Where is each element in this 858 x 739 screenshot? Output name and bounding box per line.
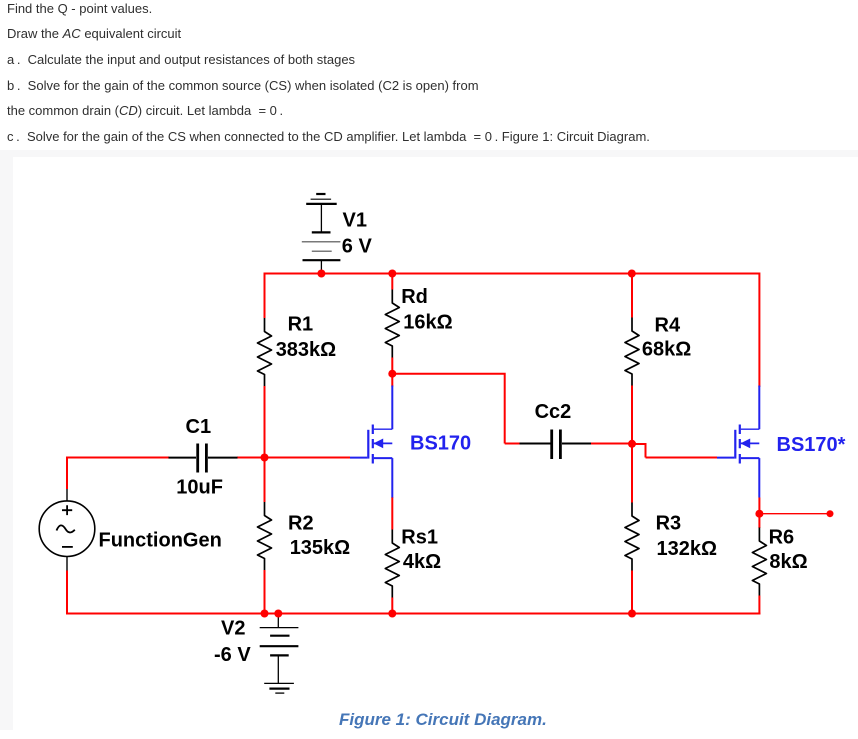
svg-text:4kΩ: 4kΩ bbox=[403, 551, 441, 573]
svg-text:C1: C1 bbox=[186, 416, 212, 438]
node gate1 (C1/R1/R2) bbox=[261, 454, 269, 462]
wire right rail top bbox=[758, 273, 760, 388]
problem statement text bbox=[7, 1, 152, 16]
source FunctionGen bbox=[39, 489, 95, 571]
wire Rd top bbox=[391, 273, 393, 290]
wire Q2 gate step bbox=[632, 443, 717, 458]
resistor R3 bbox=[625, 503, 639, 571]
svg-text:R1: R1 bbox=[288, 314, 314, 336]
wire R4 bottom node bbox=[631, 386, 633, 446]
wire left rail middle bbox=[264, 386, 266, 502]
capacitor C1 bbox=[169, 444, 238, 473]
wire Cc2 to node bbox=[591, 443, 634, 445]
battery V1 bbox=[302, 194, 341, 274]
wire input row right bbox=[237, 457, 350, 459]
wire functiongen top bbox=[66, 457, 68, 490]
resistor R1 bbox=[258, 318, 272, 386]
resistor R2 bbox=[258, 502, 272, 570]
node Rd on VDD rail bbox=[388, 270, 396, 278]
wire R4 top bbox=[631, 273, 633, 318]
wire output stub bbox=[759, 513, 830, 515]
wire top rail bbox=[265, 273, 760, 275]
wire Q2 source node bbox=[758, 498, 760, 529]
resistor Rd bbox=[385, 290, 399, 358]
resistor R4 bbox=[625, 318, 639, 386]
wire Q1 source to Rs1 bbox=[391, 497, 393, 530]
node output terminal bbox=[827, 510, 834, 517]
battery V2 bbox=[260, 614, 299, 684]
node V2 on bottom rail bbox=[274, 610, 282, 618]
transistor Q2 BS170* bbox=[717, 386, 759, 498]
svg-text:R3: R3 bbox=[656, 513, 682, 535]
wire input row left bbox=[66, 457, 169, 459]
wire bottom rail bbox=[66, 613, 760, 615]
transistor Q1 BS170 bbox=[350, 386, 392, 498]
svg-text:V2: V2 bbox=[221, 617, 245, 639]
svg-text:132kΩ: 132kΩ bbox=[657, 538, 718, 560]
wire functiongen bottom bbox=[66, 571, 68, 615]
wire R3 section bbox=[631, 444, 633, 614]
resistor R6 bbox=[752, 528, 766, 596]
ground bbox=[264, 683, 294, 693]
node R4 on VDD rail bbox=[628, 270, 636, 278]
svg-text:FunctionGen: FunctionGen bbox=[99, 530, 222, 552]
svg-text:6 V: 6 V bbox=[342, 236, 373, 258]
node gate2 (R4/R3/Cc2) bbox=[628, 440, 636, 448]
svg-text:16kΩ: 16kΩ bbox=[403, 312, 452, 334]
wire R6 bottom bbox=[758, 596, 760, 615]
node drain1 (Rd/Cc2) bbox=[388, 370, 396, 378]
node V1 on VDD rail bbox=[317, 270, 325, 278]
node R3 on bottom rail bbox=[628, 610, 636, 618]
capacitor Cc2 bbox=[520, 430, 592, 460]
svg-text:135kΩ: 135kΩ bbox=[290, 537, 351, 559]
svg-text:R2: R2 bbox=[288, 513, 314, 535]
svg-text:Cc2: Cc2 bbox=[535, 401, 572, 423]
svg-text:-6 V: -6 V bbox=[214, 644, 251, 666]
svg-text:Rs1: Rs1 bbox=[401, 527, 438, 549]
svg-text:BS170*: BS170* bbox=[777, 434, 846, 456]
svg-text:8kΩ: 8kΩ bbox=[769, 551, 807, 573]
node source2 (R6/output) bbox=[755, 510, 763, 518]
node Rs1 on bottom rail bbox=[388, 610, 396, 618]
svg-text:R6: R6 bbox=[769, 527, 795, 549]
svg-text:BS170: BS170 bbox=[410, 433, 471, 455]
resistor Rs1 bbox=[385, 530, 399, 598]
wire Rd bottom node bbox=[391, 358, 393, 387]
wire left rail upper bbox=[264, 273, 266, 319]
svg-text:Rd: Rd bbox=[401, 286, 428, 308]
svg-text:R4: R4 bbox=[655, 315, 681, 337]
svg-text:383kΩ: 383kΩ bbox=[276, 339, 337, 361]
svg-text:Figure 1: Circuit Diagram.: Figure 1: Circuit Diagram. bbox=[339, 710, 547, 729]
wire left rail lower bbox=[264, 570, 266, 615]
wire Rs1 bottom bbox=[391, 598, 393, 614]
svg-text:10uF: 10uF bbox=[176, 477, 223, 499]
svg-text:V1: V1 bbox=[343, 210, 367, 232]
node R2 on bottom rail bbox=[261, 610, 269, 618]
wire node to Cc2 bbox=[392, 374, 520, 444]
svg-text:68kΩ: 68kΩ bbox=[642, 339, 691, 361]
